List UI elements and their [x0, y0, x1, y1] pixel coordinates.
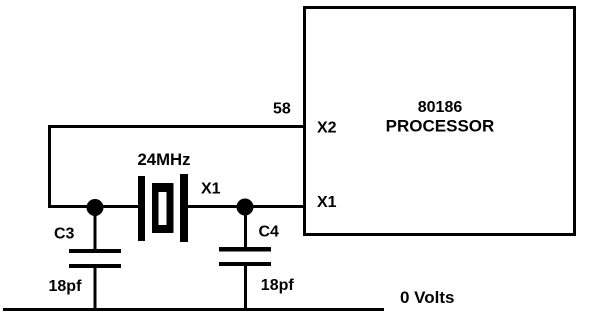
capacitor C4 — [219, 207, 271, 310]
junction node at C4 — [237, 199, 254, 216]
svg-text:24MHz: 24MHz — [138, 150, 191, 169]
svg-text:C3: C3 — [54, 226, 75, 243]
svg-text:0 Volts: 0 Volts — [400, 288, 454, 307]
wire: left vertical — [48, 125, 51, 208]
svg-text:PROCESSOR: PROCESSOR — [386, 117, 495, 136]
designator C3 — [54, 226, 75, 243]
svg-text:18pf: 18pf — [49, 278, 83, 295]
svg-text:X2: X2 — [317, 120, 337, 137]
crystal Y1 — [138, 174, 188, 242]
value label 24MHz — [138, 150, 191, 169]
pin label X2 — [317, 120, 337, 137]
value label 18pf (C3) — [49, 278, 83, 295]
capacitor C3 — [69, 207, 121, 310]
pin label X1 — [317, 194, 337, 211]
value label 18pf (C4) — [261, 277, 295, 294]
svg-text:80186: 80186 — [418, 99, 463, 116]
wire: X1 net, left segment to crystal — [48, 205, 140, 208]
svg-text:C4: C4 — [259, 224, 280, 241]
svg-text:58: 58 — [273, 101, 291, 118]
svg-text:X1: X1 — [317, 194, 337, 211]
wire: X1 net, crystal to processor — [186, 205, 306, 208]
wire: X2 pin to left vertical (top horizontal) — [48, 125, 304, 128]
svg-text:X1: X1 — [201, 181, 221, 198]
junction node at C3 — [87, 199, 104, 216]
ground rail 0V — [3, 308, 384, 311]
processor U1 80186 — [305, 8, 575, 235]
pin number 58 — [273, 101, 291, 118]
node label X1 — [201, 181, 221, 198]
designator C4 — [259, 224, 280, 241]
net label 0 Volts — [400, 288, 454, 307]
svg-text:18pf: 18pf — [261, 277, 295, 294]
